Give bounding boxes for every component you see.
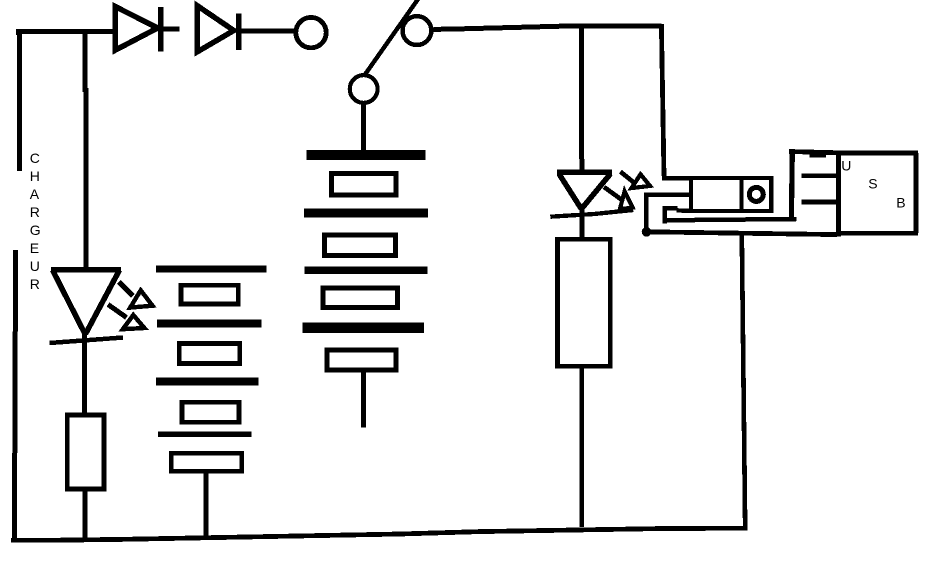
svg-text:H: H xyxy=(30,168,40,184)
svg-text:R: R xyxy=(30,204,40,220)
svg-text:B: B xyxy=(896,195,905,211)
svg-text:U: U xyxy=(841,157,851,173)
svg-text:C: C xyxy=(30,150,40,166)
svg-text:R: R xyxy=(30,276,40,292)
svg-text:S: S xyxy=(868,176,877,192)
svg-text:G: G xyxy=(30,222,41,238)
svg-text:A: A xyxy=(30,186,40,202)
svg-text:U: U xyxy=(30,258,40,274)
svg-text:E: E xyxy=(30,240,39,256)
